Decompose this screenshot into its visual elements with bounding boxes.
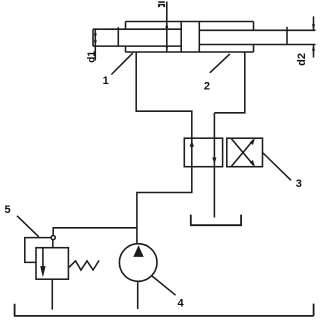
leader line for label 2 [210, 54, 230, 73]
dimension D label [158, 1, 165, 7]
svg-text:4: 4 [177, 298, 184, 310]
cylinder right rod (d2) [199, 30, 315, 44]
relief valve internal arrow [40, 248, 45, 278]
cylinder left gland tick [117, 27, 119, 46]
relief valve 5 body [36, 248, 68, 280]
dimension D line [165, 2, 168, 53]
valve up-arrow path [190, 138, 194, 167]
svg-text:5: 5 [4, 204, 10, 216]
drain tank bracket under valve [190, 215, 242, 226]
leader line for label 1 [111, 53, 132, 75]
svg-text:d1: d1 [86, 51, 97, 63]
wire junction to relief node [53, 228, 137, 236]
dimension d2 line [312, 16, 315, 57]
dimension d1 line [94, 29, 97, 60]
leader line for label 5 [17, 216, 39, 237]
wire valve to pump junction [137, 167, 192, 244]
pump flow triangle [133, 245, 143, 257]
leader line for label 3 [263, 153, 292, 181]
cylinder 1 barrel outline [125, 22, 253, 53]
relief valve pilot line [25, 238, 51, 263]
cylinder left rod (d1) [93, 29, 181, 46]
wire cylinder port1 to valve [136, 52, 192, 138]
cylinder piston 2 [181, 22, 199, 53]
relief valve drain wire [51, 279, 53, 310]
svg-text:3: 3 [296, 178, 302, 190]
pump outlet wire [137, 281, 139, 309]
wire cylinder port2 to valve [214, 52, 244, 113]
node junction circle [51, 236, 55, 240]
relief valve spring [69, 260, 99, 270]
valve crossed arrows [232, 138, 256, 167]
svg-text:1: 1 [103, 75, 109, 87]
directional valve 3 right position box [227, 138, 263, 167]
valve down-arrow path with wire to drain [212, 113, 216, 218]
tank reservoir line [14, 304, 314, 316]
svg-text:d2: d2 [296, 53, 308, 66]
cylinder right rod end tick [286, 27, 288, 45]
svg-text:2: 2 [204, 81, 210, 93]
wire node to relief valve [52, 240, 54, 248]
leader line for label 4 [152, 276, 176, 295]
pump 4 circle [119, 244, 157, 282]
directional valve 3 left position box [184, 138, 222, 167]
